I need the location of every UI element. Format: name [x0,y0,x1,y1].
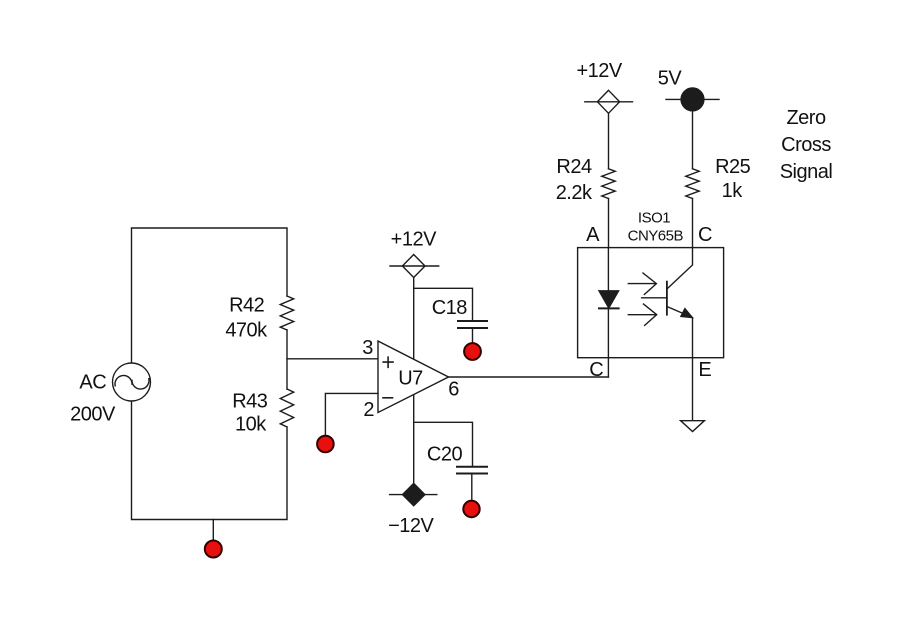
svg-text:A: A [586,224,600,246]
svg-text:470k: 470k [225,320,268,342]
svg-text:E: E [698,359,711,381]
svg-text:C: C [589,359,603,381]
svg-text:U7: U7 [398,368,423,390]
svg-text:CNY65B: CNY65B [628,227,684,244]
svg-text:6: 6 [448,379,459,401]
svg-text:−12V: −12V [388,515,434,537]
svg-text:ISO1: ISO1 [638,209,670,226]
svg-text:10k: 10k [235,413,267,435]
svg-text:R43: R43 [232,391,268,413]
svg-text:5V: 5V [658,68,683,90]
svg-text:R25: R25 [715,156,751,178]
svg-text:200V: 200V [70,403,116,425]
svg-text:R42: R42 [229,295,265,317]
svg-text:C20: C20 [427,444,463,466]
svg-text:+12V: +12V [576,60,622,82]
svg-text:2: 2 [363,399,374,421]
svg-text:+12V: +12V [391,229,437,251]
svg-text:R24: R24 [556,156,592,178]
svg-text:2.2k: 2.2k [556,182,593,204]
svg-text:3: 3 [362,337,373,359]
svg-text:Signal: Signal [780,161,833,183]
svg-text:1k: 1k [722,180,744,202]
svg-text:AC: AC [79,372,106,394]
svg-text:Cross: Cross [781,134,831,156]
svg-text:Zero: Zero [786,107,826,129]
svg-text:C18: C18 [432,297,468,319]
svg-text:C: C [698,224,712,246]
